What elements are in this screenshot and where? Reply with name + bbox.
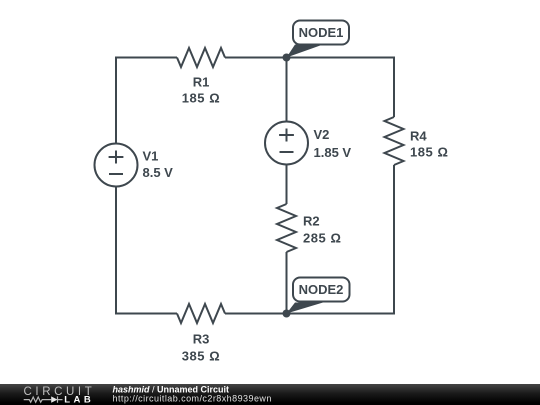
node NODE1 junction dot [283, 54, 291, 62]
wire top-left segment [116, 58, 177, 144]
voltage source V1 [95, 144, 138, 187]
svg-text:385 Ω: 385 Ω [182, 349, 220, 364]
voltage source V2 [265, 122, 308, 165]
svg-text:8.5 V: 8.5 V [143, 165, 174, 180]
node NODE2 callout wedge [287, 303, 324, 314]
logo symbol resistor+diode [24, 396, 63, 402]
svg-text:185 Ω: 185 Ω [182, 91, 220, 106]
svg-text:R1: R1 [193, 75, 210, 90]
resistor R2 [277, 204, 296, 252]
wire R1 to node1 [225, 57, 287, 59]
wire R2 to node2 [286, 252, 288, 314]
node NODE1 callout wedge [287, 45, 324, 58]
svg-text:V1: V1 [143, 149, 159, 164]
svg-text:285 Ω: 285 Ω [303, 231, 341, 246]
svg-text:LAB: LAB [64, 394, 94, 405]
wire V2 to R2 [286, 165, 288, 205]
wire R3 to node2 [225, 313, 287, 315]
wire node1 down to V2 [286, 58, 288, 122]
svg-text:R3: R3 [193, 332, 210, 347]
wire V1 to bottom-left corner [116, 187, 177, 314]
footer bar [0, 384, 540, 405]
node NODE1 callout box [293, 21, 349, 45]
svg-text:NODE2: NODE2 [299, 282, 344, 297]
node NODE2 junction dot [283, 310, 291, 318]
resistor R3 [177, 304, 225, 323]
svg-text:NODE1: NODE1 [299, 25, 344, 40]
svg-text:V2: V2 [314, 127, 330, 142]
svg-text:http://circuitlab.com/c2r8xh89: http://circuitlab.com/c2r8xh8939ewn [113, 394, 272, 404]
svg-text:185 Ω: 185 Ω [410, 145, 448, 160]
wire node1 to top-right corner and down to R4 [287, 58, 395, 118]
svg-text:1.85 V: 1.85 V [314, 145, 352, 160]
resistor R1 [177, 48, 225, 67]
node NODE2 callout box [293, 278, 350, 302]
resistor R4 [385, 117, 404, 165]
wire R4 to bottom-right corner [287, 165, 395, 314]
svg-text:R4: R4 [410, 129, 427, 144]
svg-text:R2: R2 [303, 214, 320, 229]
